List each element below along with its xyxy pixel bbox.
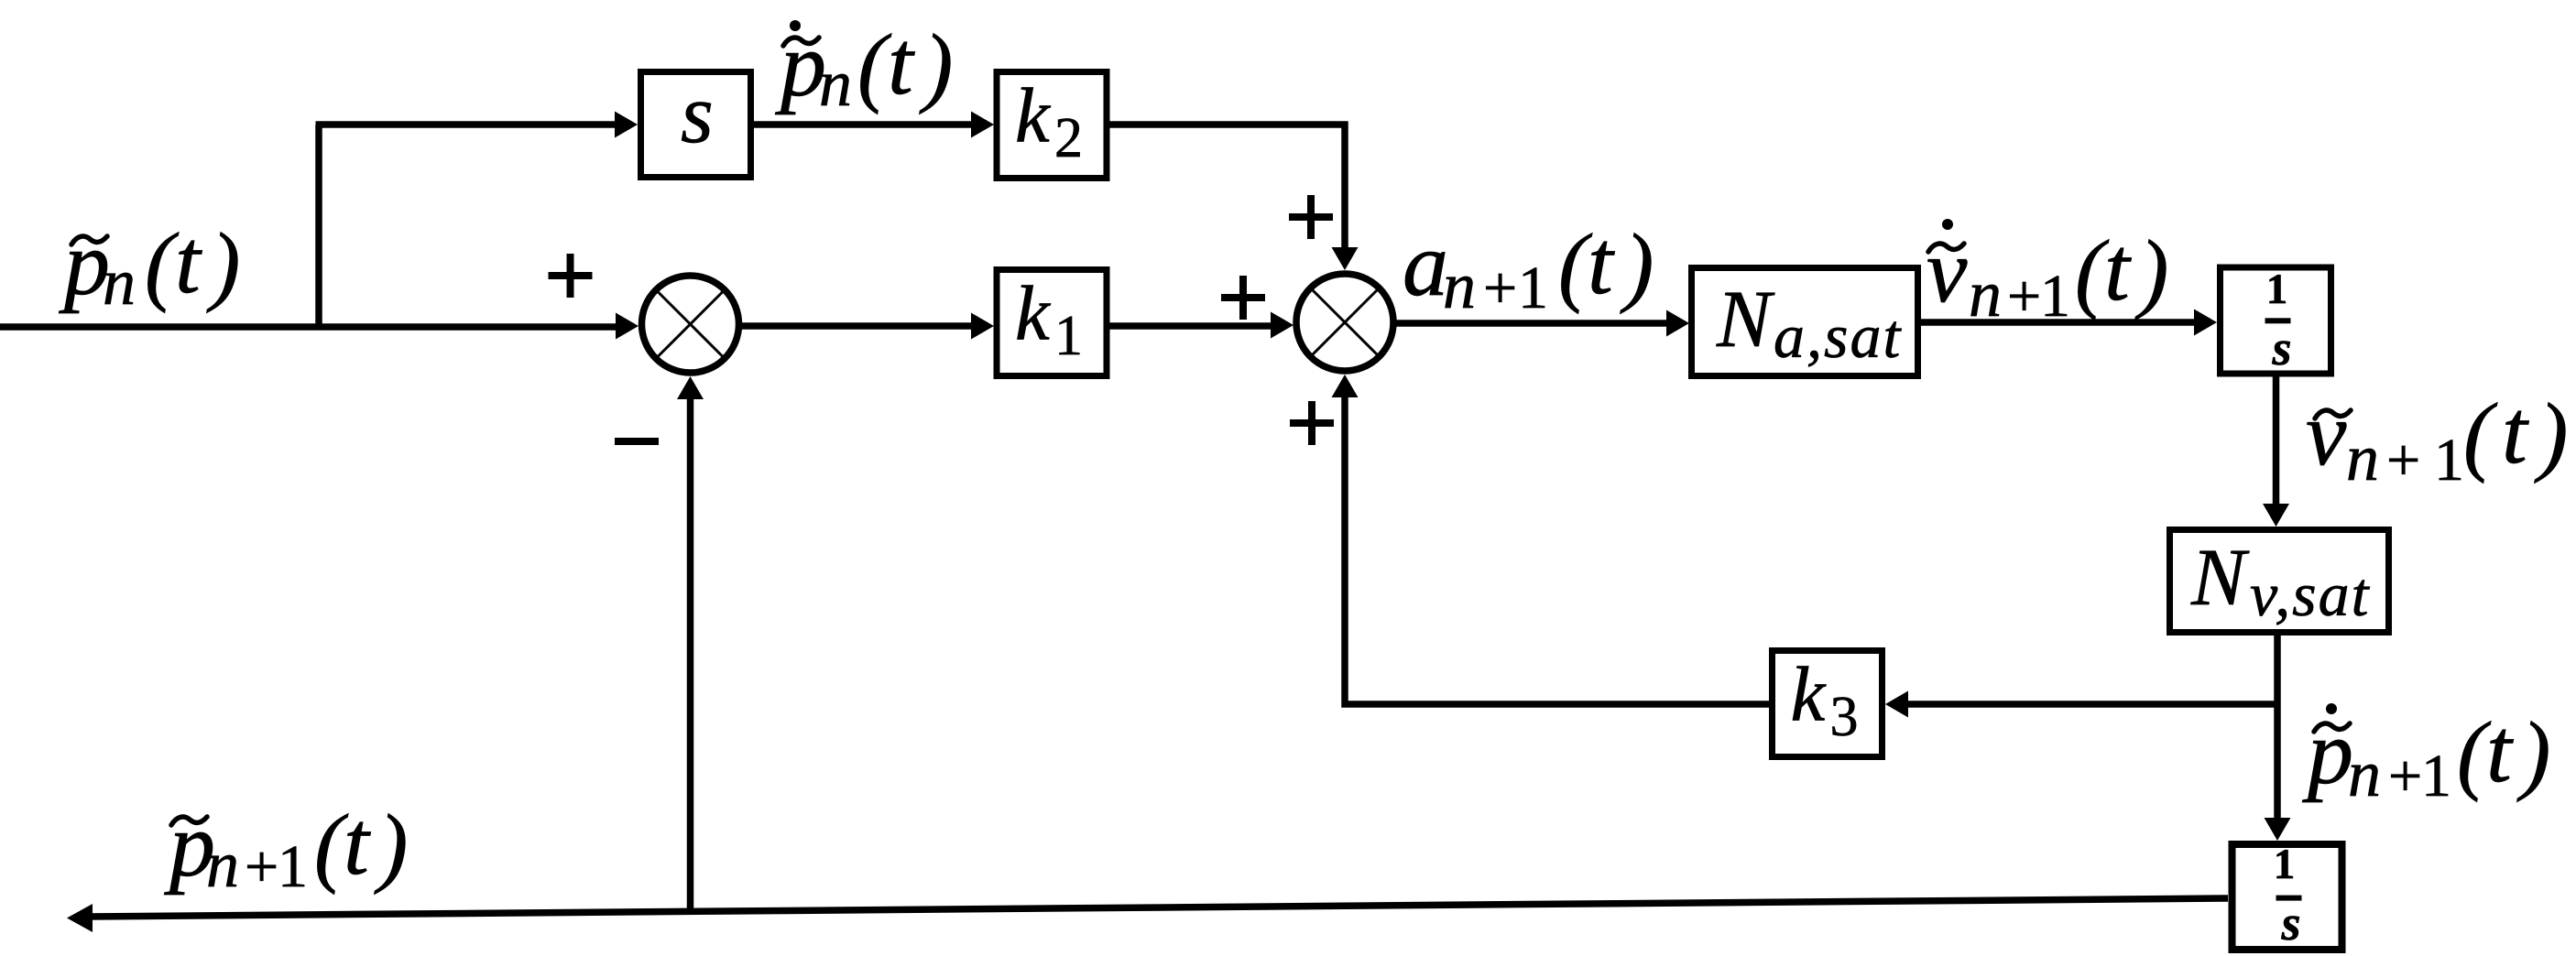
arrowhead into J2 bottom xyxy=(1332,375,1359,397)
svg-text:+: + xyxy=(1483,255,1517,321)
svg-text:1: 1 xyxy=(2040,263,2070,330)
plus sign above J1 xyxy=(549,254,593,298)
svg-text:n: n xyxy=(2348,737,2381,810)
wire Nv,sat down to integrator 2 xyxy=(2274,636,2281,819)
arrowhead into k3 right side xyxy=(1885,691,1908,718)
wire k2 to junction J2 (right then down) xyxy=(1107,125,1345,249)
svg-text:s: s xyxy=(2271,320,2291,375)
block k1 xyxy=(997,270,1107,376)
svg-text:2: 2 xyxy=(1054,107,1083,169)
wire Na,sat to integrator 1 xyxy=(1921,319,2195,326)
svg-text:+: + xyxy=(2007,263,2041,330)
svg-text:a,sat: a,sat xyxy=(1774,301,1902,371)
wire input main line xyxy=(0,323,617,331)
svg-text:k: k xyxy=(1015,271,1051,357)
svg-text:t: t xyxy=(344,792,371,894)
svg-text:1: 1 xyxy=(2421,743,2451,809)
arrowhead into J1 bottom xyxy=(677,376,704,399)
svg-text:k: k xyxy=(1791,652,1827,738)
summing junction J2 xyxy=(1296,274,1393,371)
svg-text:1: 1 xyxy=(2266,266,2288,313)
svg-text:): ) xyxy=(2516,704,2550,802)
block Na,sat xyxy=(1692,268,1918,376)
wire long return line bottom xyxy=(88,898,2228,917)
svg-text:v,sat: v,sat xyxy=(2250,559,2371,629)
block Nv,sat xyxy=(2170,530,2389,633)
node branch vertical from input up to s xyxy=(315,125,322,327)
svg-text:): ) xyxy=(206,215,240,313)
wire J2 to Na,sat xyxy=(1393,320,1667,327)
arrowhead into Nv,sat top xyxy=(2263,504,2289,527)
svg-text:n: n xyxy=(1443,249,1476,322)
label vdot~_{n+1}(t) above wire xyxy=(1927,218,2168,331)
svg-text:t: t xyxy=(2502,381,2529,483)
block integrator 1/s (top right) xyxy=(2221,266,2331,375)
arrowhead into J2 top xyxy=(1332,247,1359,270)
svg-text:t: t xyxy=(175,211,202,312)
svg-text:1: 1 xyxy=(1518,255,1548,321)
label input p~n(t) xyxy=(59,211,240,319)
svg-text:): ) xyxy=(2134,223,2168,320)
svg-text:+: + xyxy=(245,833,278,900)
svg-text:N: N xyxy=(1716,275,1775,364)
svg-text:): ) xyxy=(2534,386,2568,483)
svg-text:): ) xyxy=(919,16,953,114)
arrowhead into integrator 1 xyxy=(2194,310,2217,336)
arrowhead into J2 left xyxy=(1271,312,1293,339)
arrowhead into Na,sat xyxy=(1666,310,1689,337)
svg-text:n: n xyxy=(103,245,136,319)
svg-text:n: n xyxy=(206,828,239,901)
arrowhead into block k2 xyxy=(971,112,994,138)
svg-text:): ) xyxy=(374,797,408,895)
svg-text:v: v xyxy=(2306,383,2347,484)
svg-text:1: 1 xyxy=(2274,841,2296,888)
wire k1 to J2 xyxy=(1107,322,1272,330)
svg-text:n: n xyxy=(1969,257,2002,331)
svg-text:t: t xyxy=(2486,700,2514,801)
label pdot~_{n+1}(t) right of wire xyxy=(2302,700,2550,810)
wire return up to J1 bottom xyxy=(687,398,694,914)
svg-text:t: t xyxy=(888,12,915,114)
svg-text:k: k xyxy=(1015,73,1051,159)
block k2 xyxy=(997,72,1107,179)
label pdot~n(t) above wire xyxy=(775,12,953,120)
svg-text:s: s xyxy=(681,67,714,160)
svg-text:(: ( xyxy=(2463,386,2498,483)
svg-text:1: 1 xyxy=(278,833,308,900)
plus sign top-left of J2 xyxy=(1289,195,1333,239)
svg-text:p: p xyxy=(2302,701,2353,803)
svg-text:+: + xyxy=(2388,743,2422,809)
label a_{n+1}(t) xyxy=(1403,212,1654,322)
svg-text:n: n xyxy=(819,47,852,120)
arrowhead into block s xyxy=(615,112,638,138)
plus sign left of J2 xyxy=(1221,276,1265,320)
block s xyxy=(641,67,751,178)
svg-text:v: v xyxy=(1927,220,1968,321)
plus sign bottom-left of J2 xyxy=(1290,401,1334,445)
arrowhead into summing junction J1 xyxy=(616,313,639,340)
svg-text:n: n xyxy=(2346,421,2379,494)
wire J1 to k1 xyxy=(742,322,973,330)
svg-text:s: s xyxy=(2280,896,2300,951)
svg-text:a: a xyxy=(1403,213,1448,315)
svg-text:N: N xyxy=(2190,533,2250,623)
arrowhead output left xyxy=(67,904,93,932)
summing junction J1 xyxy=(642,276,739,373)
wire feedback from Nv branch to k3 xyxy=(1907,701,2277,708)
wire branch to block s xyxy=(316,121,617,128)
label p~_{n+1}(t) bottom left xyxy=(164,792,408,901)
label v~_{n+1}(t) right of wire xyxy=(2306,381,2568,494)
wire k3 to J2 bottom (left then up) xyxy=(1345,397,1769,704)
svg-text:3: 3 xyxy=(1830,686,1859,748)
wire integrator1 down to Nv,sat xyxy=(2273,374,2280,505)
wire s to k2 xyxy=(754,121,973,128)
arrowhead into integrator 2 top xyxy=(2265,818,2291,841)
svg-text:+: + xyxy=(2386,427,2420,494)
svg-text:1: 1 xyxy=(2434,427,2464,494)
svg-text:1: 1 xyxy=(1054,305,1083,367)
block k3 xyxy=(1773,651,1883,757)
arrowhead into k1 xyxy=(971,313,994,340)
svg-text:t: t xyxy=(2104,218,2132,320)
svg-text:t: t xyxy=(1588,212,1615,313)
svg-text:): ) xyxy=(1620,216,1654,314)
minus sign below-left of J1 xyxy=(615,438,659,445)
block integrator 1/s (bottom right) xyxy=(2232,841,2342,951)
